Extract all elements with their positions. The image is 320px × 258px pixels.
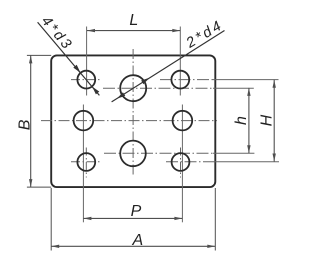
dimension P line bbox=[83, 217, 182, 219]
centerline+extension L right through hole TR x=180.3 bbox=[179, 27, 181, 96]
dimension h arrow bottom bbox=[247, 145, 250, 153]
svg-text:H: H bbox=[259, 114, 276, 126]
dimension A arrow right bbox=[207, 245, 215, 248]
centerline row top y=79.6 left segment bbox=[71, 79, 101, 81]
centerline column center x=133.1 bbox=[132, 49, 134, 176]
svg-text:h: h bbox=[233, 116, 250, 125]
svg-text:2*d4: 2*d4 bbox=[183, 17, 227, 52]
hole TC d4 bbox=[120, 75, 146, 101]
extension P right through hole MR x=182.4 bbox=[181, 105, 183, 223]
dimension P arrow right bbox=[174, 217, 182, 220]
hole TL d3 bbox=[77, 71, 95, 89]
centerline large hole bottom y=153.3 / h bottom extension bbox=[104, 152, 213, 154]
centerline hole BL vertical bbox=[85, 148, 87, 178]
centerline hole BR vertical bbox=[180, 148, 182, 178]
centerline row bottom y=161.8 right segment / H bottom extension bbox=[166, 161, 213, 163]
hole MR bbox=[173, 111, 193, 131]
dimension A arrow left bbox=[51, 245, 59, 248]
plate outline bbox=[51, 55, 215, 187]
leader 4*d3 line bbox=[38, 22, 100, 95]
dimension P arrow left bbox=[83, 217, 91, 220]
extension P left through hole ML x=83.4 bbox=[82, 105, 84, 223]
svg-text:A: A bbox=[131, 232, 143, 249]
extension A right bbox=[214, 188, 216, 251]
svg-text:L: L bbox=[129, 12, 138, 29]
dimension L arrow left bbox=[87, 29, 95, 32]
dimension L arrow right bbox=[172, 29, 180, 32]
dimension H arrow top bbox=[273, 80, 276, 88]
dimension H line bbox=[273, 80, 275, 162]
centerline row top y=79.6 right segment / H top extension bbox=[160, 79, 213, 81]
dimension L line bbox=[87, 30, 180, 32]
dimension h arrow top bbox=[247, 88, 250, 96]
svg-text:4*d3: 4*d3 bbox=[38, 13, 76, 54]
svg-text:P: P bbox=[131, 203, 142, 220]
hole TR d3 bbox=[171, 71, 189, 89]
leader 4*d3 arrow lower bbox=[92, 87, 99, 95]
centerline row middle y=120.6 bbox=[41, 120, 217, 122]
hole BL d3 bbox=[77, 153, 95, 171]
hole BC d4 bbox=[120, 141, 146, 167]
dimension H arrow bottom bbox=[273, 154, 276, 162]
leader 2*d4 arrow upper bbox=[141, 78, 149, 85]
hole ML bbox=[74, 111, 94, 131]
leader 2*d4 arrow lower bbox=[117, 92, 125, 98]
leader 4*d3 arrow upper bbox=[73, 65, 80, 73]
dimension h line bbox=[248, 88, 250, 153]
svg-text:B: B bbox=[16, 119, 33, 130]
centerline row bottom y=161.8 left segment bbox=[71, 161, 101, 163]
dimension B arrow top bbox=[29, 55, 32, 63]
centerline+extension L left through hole TL x=86.6 bbox=[86, 27, 88, 96]
dimension B arrow bottom bbox=[29, 179, 32, 187]
extension A left bbox=[50, 188, 52, 251]
dimension B line bbox=[30, 55, 32, 187]
centerline large hole top y=88.2 / h top extension bbox=[103, 87, 213, 89]
extension B top bbox=[27, 54, 51, 56]
extension B bottom bbox=[27, 186, 51, 188]
hole BR d3 bbox=[172, 153, 190, 171]
leader 2*d4 line bbox=[112, 31, 225, 102]
dimension A line bbox=[51, 245, 215, 247]
